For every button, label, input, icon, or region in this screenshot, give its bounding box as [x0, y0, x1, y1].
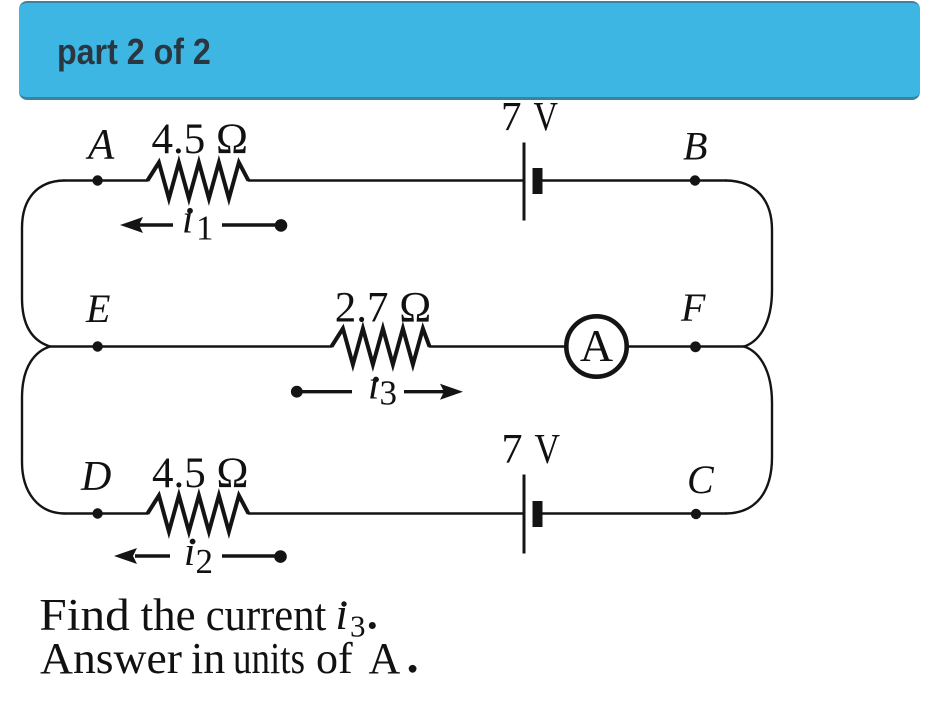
svg-text:in: in	[191, 634, 225, 683]
svg-text:7: 7	[501, 93, 522, 139]
svg-text:A: A	[369, 634, 401, 683]
svg-text:current: current	[206, 590, 327, 640]
svg-text:ı: ı	[184, 528, 195, 574]
svg-text:4.5 Ω: 4.5 Ω	[152, 450, 248, 497]
svg-text:of: of	[316, 634, 353, 683]
svg-text:Answer: Answer	[40, 634, 182, 683]
svg-text:2.7 Ω: 2.7 Ω	[335, 285, 431, 332]
svg-text:A: A	[85, 122, 115, 169]
svg-text:ı: ı	[368, 362, 379, 408]
svg-text:D: D	[80, 454, 111, 500]
svg-text:C: C	[687, 457, 715, 502]
svg-text:V: V	[535, 427, 561, 473]
svg-text:the: the	[141, 590, 196, 640]
svg-text:E: E	[85, 286, 110, 331]
svg-text:V: V	[534, 93, 559, 139]
svg-text:ı: ı	[182, 196, 193, 242]
svg-text:F: F	[680, 285, 706, 330]
svg-text:1: 1	[196, 209, 214, 248]
svg-text:B: B	[683, 124, 707, 169]
svg-text:7: 7	[502, 427, 523, 473]
svg-text:A: A	[580, 320, 613, 371]
svg-text:4.5 Ω: 4.5 Ω	[152, 116, 248, 163]
svg-text:2: 2	[196, 542, 214, 581]
svg-text:units: units	[233, 634, 305, 683]
svg-text:Find: Find	[39, 590, 129, 640]
svg-text:3: 3	[380, 374, 398, 413]
svg-text:ı: ı	[336, 589, 349, 639]
